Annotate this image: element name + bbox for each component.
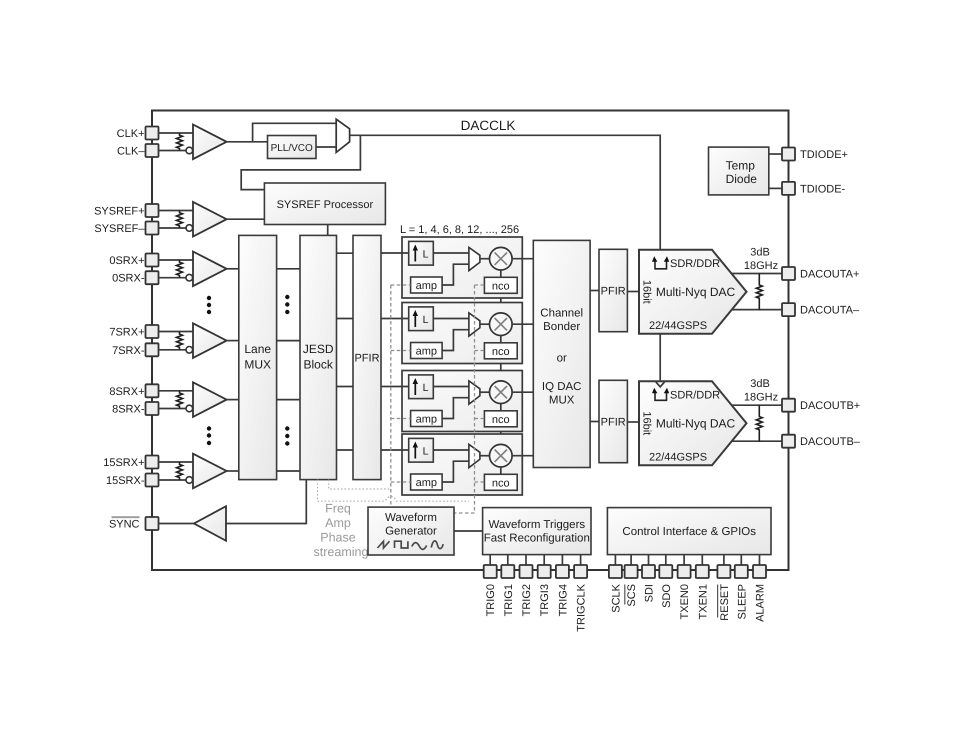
svg-text:Amp: Amp (325, 516, 351, 530)
pin DACOUTA– (782, 303, 795, 316)
wire DACOUTA+ output (732, 273, 783, 275)
wire PFIR to channel 3 (381, 386, 409, 388)
nco block channel 1 (484, 277, 517, 293)
svg-text:Multi-Nyq DAC: Multi-Nyq DAC (656, 417, 736, 431)
svg-text:amp: amp (416, 477, 437, 489)
svg-text:TXEN0: TXEN0 (679, 584, 691, 619)
data mux channel 3 (469, 381, 480, 404)
svg-text:3dB: 3dB (750, 378, 770, 390)
dashed nco streaming bus (454, 285, 475, 513)
wire stub pin TRIG0 (489, 555, 491, 565)
wire multiplier to channel bonder channel 4 (512, 455, 533, 457)
svg-text:TRIG4: TRIG4 (557, 584, 569, 616)
multiplier (mixer) channel 3 (490, 381, 513, 404)
wire amp to mux channel 3 (442, 398, 469, 419)
pin TRIG0 (484, 565, 497, 578)
svg-text:0SRX+: 0SRX+ (109, 255, 144, 267)
wire PLL bypass loop (253, 123, 337, 142)
wire channel 2 to channel 3 (500, 364, 502, 371)
wire stub pin SCS (630, 555, 632, 565)
pin TDIODE- (782, 182, 795, 195)
svg-text:Lane: Lane (244, 342, 271, 356)
wire DACCLK branch to SYSREF processor (241, 135, 360, 189)
inverting bubble 8SRX (186, 405, 193, 412)
pin ALARM (753, 565, 766, 578)
block Waveform Triggers / Fast Reconfiguration (483, 508, 591, 555)
wire SYSREF+ to buffer (159, 210, 194, 212)
wire PFIR B to DAC B (627, 421, 639, 423)
block Control Interface and GPIOs (607, 508, 771, 555)
multiplier (mixer) channel 1 (490, 247, 513, 270)
svg-text:16bit: 16bit (641, 280, 653, 304)
amp block channel 3 (411, 411, 443, 427)
amp block channel 4 (411, 474, 443, 490)
wire channel bonder to PFIR A (590, 290, 599, 292)
pin SYNC (146, 517, 159, 530)
svg-text:JESD: JESD (303, 342, 334, 356)
svg-text:PFIR: PFIR (354, 353, 379, 365)
arrowhead DACCLK into DAC A (656, 251, 665, 256)
svg-text:15SRX+: 15SRX+ (103, 457, 144, 469)
svg-text:18GHz: 18GHz (744, 392, 778, 404)
svg-text:Temp: Temp (726, 159, 756, 173)
pin 15SRX- (146, 474, 159, 487)
svg-text:0SRX-: 0SRX- (112, 273, 145, 285)
wire 15SRX- to buffer bubble (159, 479, 187, 481)
svg-text:RESET: RESET (719, 584, 731, 621)
pin SDO (659, 565, 672, 578)
svg-text:Multi-Nyq DAC: Multi-Nyq DAC (656, 285, 736, 299)
svg-text:3dB: 3dB (750, 247, 770, 259)
dashed nco stream branch channel 4 (475, 481, 485, 483)
svg-text:TRIGCLK: TRIGCLK (576, 583, 588, 631)
svg-text:L = 1, 4, 6, 8, 12, ..., 256: L = 1, 4, 6, 8, 12, ..., 256 (400, 224, 519, 236)
termination resistor CLK (177, 133, 183, 151)
svg-text:TRIG0: TRIG0 (485, 584, 497, 616)
svg-text:IQ DAC: IQ DAC (542, 381, 582, 393)
pin SLEEP (735, 565, 748, 578)
svg-text:PLL/VCO: PLL/VCO (271, 143, 313, 154)
svg-text:16bit: 16bit (641, 411, 653, 435)
svg-text:Channel: Channel (540, 308, 583, 320)
input buffer 0SRX (193, 252, 227, 287)
data mux channel 2 (469, 313, 480, 336)
wire JESD Block to SYNC buffer (226, 480, 306, 524)
wire temp diode to TDIODE+ (769, 153, 782, 155)
pin SCLK (609, 565, 622, 578)
wire DACOUTB+ output (732, 404, 783, 406)
svg-text:DACOUTA–: DACOUTA– (800, 305, 860, 317)
dashed nco stream branch channel 1 (475, 284, 485, 286)
pin TRIG2 (520, 565, 533, 578)
svg-text:PFIR: PFIR (601, 286, 626, 298)
block JESD Block (300, 235, 337, 479)
wire stub pin ALARM (759, 555, 761, 565)
svg-text:SDI: SDI (644, 584, 656, 602)
wire CLK buffer output (227, 141, 268, 143)
channel 4 interpolator box (402, 434, 522, 495)
block Lane MUX (239, 235, 277, 479)
wire stub pin TXEN1 (701, 555, 703, 565)
wire multiplier to channel bonder channel 1 (512, 258, 533, 260)
wire CLK– to buffer bubble (159, 150, 187, 152)
wire multiplier to nco channel 1 (500, 270, 502, 277)
svg-text:18GHz: 18GHz (744, 260, 778, 272)
svg-text:CLK–: CLK– (117, 146, 145, 158)
pin RESET (717, 565, 730, 578)
svg-text:22/44GSPS: 22/44GSPS (649, 451, 707, 463)
pin 7SRX+ (146, 325, 159, 338)
wire PFIR to channel 2 (381, 318, 409, 320)
svg-text:MUX: MUX (549, 394, 575, 406)
pin TRIG4 (556, 565, 569, 578)
pin DACOUTB+ (782, 399, 795, 412)
input buffer 15SRX (193, 454, 227, 489)
svg-text:nco: nco (492, 346, 510, 358)
interpolate-by-L block channel 1 (409, 241, 434, 265)
svg-text:TXEN1: TXEN1 (697, 584, 709, 619)
svg-text:DACOUTB+: DACOUTB+ (800, 400, 860, 412)
input buffer CLK (193, 125, 227, 160)
wire 8SRX- to buffer bubble (159, 408, 187, 410)
wire stub pin TRIG1 (507, 555, 509, 565)
pin CLK– (146, 144, 159, 157)
svg-text:DACCLK: DACCLK (461, 118, 516, 133)
wire DACOUTA- output (732, 309, 782, 311)
dashed nco stream branch channel 2 (475, 350, 485, 352)
channel 2 interpolator box (402, 303, 522, 364)
pin SYSREF+ (146, 204, 159, 217)
wire 15SRX+ to buffer (159, 461, 194, 463)
wire multiplier to nco channel 2 (500, 336, 502, 343)
wire stub pin TRIGCLK (580, 555, 582, 565)
nco block channel 2 (484, 343, 517, 359)
svg-text:SYSREF Processor: SYSREF Processor (277, 199, 374, 211)
pin TRGI3 (538, 565, 551, 578)
amp block channel 2 (411, 343, 443, 359)
wire channel bonder to PFIR B (590, 421, 599, 423)
overline RESET (717, 585, 719, 618)
data mux channel 4 (469, 444, 480, 467)
block PFIR (JESD side) (353, 235, 381, 479)
svg-text:7SRX+: 7SRX+ (109, 327, 144, 339)
wires JESD Block to PFIR (337, 252, 354, 254)
svg-text:SCS: SCS (626, 584, 638, 607)
data mux channel 1 (469, 247, 480, 270)
svg-text:nco: nco (492, 477, 510, 489)
interpolate-by-L block channel 3 (409, 375, 434, 399)
wire SYSREF Processor to JESD Block (327, 225, 329, 236)
wire multiplier to nco channel 4 (500, 467, 502, 474)
DAC core B (Multi-Nyq DAC) (639, 381, 747, 465)
wire 0SRX buffer to Lane MUX (227, 268, 239, 270)
wire L to mux channel 2 (433, 318, 469, 320)
clock mux U2 (336, 119, 349, 152)
pin 7SRX- (146, 343, 159, 356)
pin 0SRX- (146, 271, 159, 284)
inverting bubble 15SRX (186, 477, 193, 484)
svg-text:or: or (557, 353, 567, 365)
svg-text:Block: Block (304, 358, 334, 372)
wire 7SRX buffer to Lane MUX (227, 340, 239, 342)
svg-text:nco: nco (492, 280, 510, 292)
wire stub pin SDI (648, 555, 650, 565)
pin CLK+ (146, 127, 159, 140)
block Temp Diode (709, 147, 769, 195)
svg-text:8SRX-: 8SRX- (112, 404, 145, 416)
svg-text:DACOUTA+: DACOUTA+ (800, 269, 859, 281)
svg-text:TRGI3: TRGI3 (539, 584, 551, 616)
wire multiplier to channel bonder channel 3 (512, 391, 533, 393)
dotted stream line from JESD 2 with hop (318, 480, 470, 502)
wire L to mux channel 3 (433, 386, 469, 388)
wire 7SRX- to buffer bubble (159, 349, 187, 351)
SYNC output buffer (194, 506, 226, 541)
wire 0SRX+ to buffer (159, 259, 194, 261)
inverting bubble CLK (186, 147, 193, 154)
wire DACOUTB- output (732, 440, 782, 442)
svg-text:L: L (423, 314, 429, 326)
svg-text:8SRX+: 8SRX+ (109, 386, 144, 398)
termination resistor SYSREF (177, 211, 183, 229)
nco block channel 3 (484, 411, 517, 427)
ellipsis dots left lower (207, 426, 211, 430)
svg-text:SDR/DDR: SDR/DDR (670, 258, 720, 270)
dashed amp streaming bus (390, 285, 392, 507)
svg-text:15SRX-: 15SRX- (106, 475, 145, 487)
pin 0SRX+ (146, 254, 159, 267)
wire DACCLK DAC A to DAC B (659, 334, 661, 382)
clock edges icon DAC A (655, 261, 667, 269)
pin 8SRX+ (146, 384, 159, 397)
svg-text:SDO: SDO (661, 584, 673, 608)
DAC core A (Multi-Nyq DAC) (639, 250, 747, 334)
svg-text:L: L (423, 382, 429, 394)
ellipsis dots mid lower (285, 426, 289, 430)
svg-text:ALARM: ALARM (755, 584, 767, 622)
wire stub pin TRGI3 (543, 555, 545, 565)
wire stub pin TRIG2 (525, 555, 527, 565)
svg-text:TDIODE-: TDIODE- (800, 183, 846, 195)
input buffer SYSREF (193, 202, 227, 237)
wire L to mux channel 1 (433, 252, 469, 254)
amp block channel 1 (411, 277, 443, 293)
ellipsis dots mid upper (285, 295, 289, 299)
ellipsis dots left upper (207, 296, 211, 300)
svg-text:SCLK: SCLK (610, 583, 622, 612)
wire L to mux channel 4 (433, 449, 469, 451)
svg-text:streaming: streaming (314, 545, 369, 559)
svg-text:amp: amp (416, 414, 437, 426)
wire PFIR to channel 1 (381, 252, 409, 254)
wire CLK+ to buffer (159, 132, 194, 134)
wire multiplier to nco channel 3 (500, 404, 502, 411)
pin TXEN1 (696, 565, 709, 578)
svg-text:Control Interface & GPIOs: Control Interface & GPIOs (622, 526, 756, 538)
input buffer 8SRX (193, 382, 227, 417)
dashed amp stream branch channel 1 (391, 284, 411, 286)
wire stub pin SCLK (614, 555, 616, 565)
wire 8SRX+ to buffer (159, 390, 194, 392)
wire multiplier to channel bonder channel 2 (512, 323, 533, 325)
termination resistor 8SRX (177, 391, 183, 409)
pin TDIODE+ (782, 148, 795, 161)
termination resistor 0SRX (177, 260, 183, 278)
channel 3 interpolator box (402, 371, 522, 432)
wire PFIR to channel 4 (381, 449, 409, 451)
svg-text:7SRX-: 7SRX- (112, 345, 145, 357)
multiplier (mixer) channel 4 (490, 444, 513, 467)
wire temp diode to TDIODE- (769, 187, 782, 189)
chip outer boundary (152, 111, 789, 571)
block Channel Bonder / IQ DAC MUX (533, 240, 590, 467)
wire channel 1 to channel 2 (500, 298, 502, 303)
dashed nco stream branch channel 3 (475, 418, 485, 420)
svg-text:L: L (423, 445, 429, 457)
pin TRIGCLK (574, 565, 587, 578)
svg-text:DACOUTB–: DACOUTB– (800, 436, 861, 448)
wire waveform generator to waveform triggers (454, 530, 483, 532)
block PLL/VCO (268, 136, 317, 159)
wire stub pin RESET (723, 555, 725, 565)
svg-text:L: L (423, 248, 429, 260)
waveform icons (378, 541, 390, 548)
wire stub pin SDO (665, 555, 667, 565)
pin SDI (642, 565, 655, 578)
pin 15SRX+ (146, 456, 159, 469)
pin SYSREF– (146, 222, 159, 235)
arrowhead DACCLK into DAC B (656, 382, 665, 387)
svg-text:amp: amp (416, 280, 437, 292)
wire 7SRX+ to buffer (159, 331, 194, 333)
svg-text:Waveform Triggers: Waveform Triggers (488, 519, 585, 531)
svg-text:amp: amp (416, 346, 437, 358)
svg-text:Waveform: Waveform (385, 512, 437, 524)
pin 8SRX- (146, 402, 159, 415)
wire channel 3 to channel 4 (500, 432, 502, 435)
svg-text:PFIR: PFIR (601, 417, 626, 429)
svg-text:MUX: MUX (244, 358, 271, 372)
block PFIR A (599, 249, 627, 331)
svg-text:Phase: Phase (320, 531, 355, 545)
wire 8SRX buffer to Lane MUX (227, 399, 239, 401)
pin TXEN0 (678, 565, 691, 578)
block Waveform Generator (368, 507, 454, 555)
channel 1 interpolator box (402, 237, 522, 298)
svg-text:SLEEP: SLEEP (736, 584, 748, 619)
interpolate-by-L block channel 2 (409, 307, 434, 331)
wire PFIR A to DAC A (627, 291, 639, 293)
dashed amp stream branch channel 3 (391, 418, 411, 420)
interpolate-by-L block channel 4 (409, 438, 434, 462)
load resistor DACOUTB (756, 405, 762, 441)
wire stub pin TRIG4 (561, 555, 563, 565)
pin SCS (625, 565, 638, 578)
wire mux to multiplier channel 4 (480, 455, 490, 457)
termination resistor 7SRX (177, 332, 183, 350)
svg-text:Bonder: Bonder (543, 321, 580, 333)
pin TRIG1 (501, 565, 514, 578)
svg-text:Diode: Diode (726, 172, 758, 186)
svg-text:Generator: Generator (385, 526, 437, 538)
wire 0SRX- to buffer bubble (159, 277, 187, 279)
clock edges icon DAC B (655, 392, 667, 400)
dashed amp stream branch channel 4 (391, 481, 411, 483)
termination resistor 15SRX (177, 462, 183, 480)
wire 15SRX buffer to Lane MUX (227, 470, 239, 472)
svg-text:Freq: Freq (325, 502, 351, 516)
svg-text:nco: nco (492, 414, 510, 426)
inverting bubble SYSREF (186, 225, 193, 232)
input buffer 7SRX (193, 323, 227, 358)
wire DACCLK (350, 135, 661, 250)
wire SYSREF buffer output (227, 218, 265, 220)
overline SCS (624, 585, 626, 605)
dashed amp stream branch channel 2 (391, 350, 411, 352)
svg-text:SDR/DDR: SDR/DDR (670, 390, 720, 402)
svg-text:CLK+: CLK+ (117, 128, 145, 140)
wire stub pin TXEN0 (683, 555, 685, 565)
block SYSREF Processor (264, 183, 385, 225)
svg-text:TDIODE+: TDIODE+ (800, 149, 848, 161)
SYNC label overline (112, 516, 140, 518)
svg-text:SYNC: SYNC (109, 519, 140, 531)
wire amp to mux channel 1 (442, 264, 469, 285)
wire mux to multiplier channel 1 (480, 258, 490, 260)
wires Lane MUX to JESD Block (277, 268, 300, 270)
wire amp to mux channel 4 (442, 461, 469, 482)
inverting bubble 7SRX (186, 347, 193, 354)
wire stub pin SLEEP (740, 555, 742, 565)
pin DACOUTB– (782, 435, 795, 448)
dotted stream line from JESD 1 (329, 480, 391, 489)
svg-text:SYSREF+: SYSREF+ (94, 206, 144, 218)
svg-text:Fast Reconfiguration: Fast Reconfiguration (484, 533, 590, 545)
svg-text:SYSREF–: SYSREF– (94, 223, 145, 235)
load resistor DACOUTA (756, 274, 762, 310)
multiplier (mixer) channel 2 (490, 313, 513, 336)
pin DACOUTA+ (782, 267, 795, 280)
inverting bubble 0SRX (186, 274, 193, 281)
svg-text:TRIG1: TRIG1 (503, 584, 515, 616)
wire SYNC buffer to pin (159, 523, 195, 525)
svg-text:TRIG2: TRIG2 (521, 584, 533, 616)
wire SYSREF– to buffer bubble (159, 227, 187, 229)
wire PLL/VCO output (316, 146, 336, 148)
wire mux to multiplier channel 3 (480, 391, 490, 393)
nco block channel 4 (484, 474, 517, 490)
wire amp to mux channel 2 (442, 330, 469, 351)
svg-text:22/44GSPS: 22/44GSPS (649, 320, 707, 332)
block PFIR B (599, 380, 627, 462)
wire mux to multiplier channel 2 (480, 323, 490, 325)
